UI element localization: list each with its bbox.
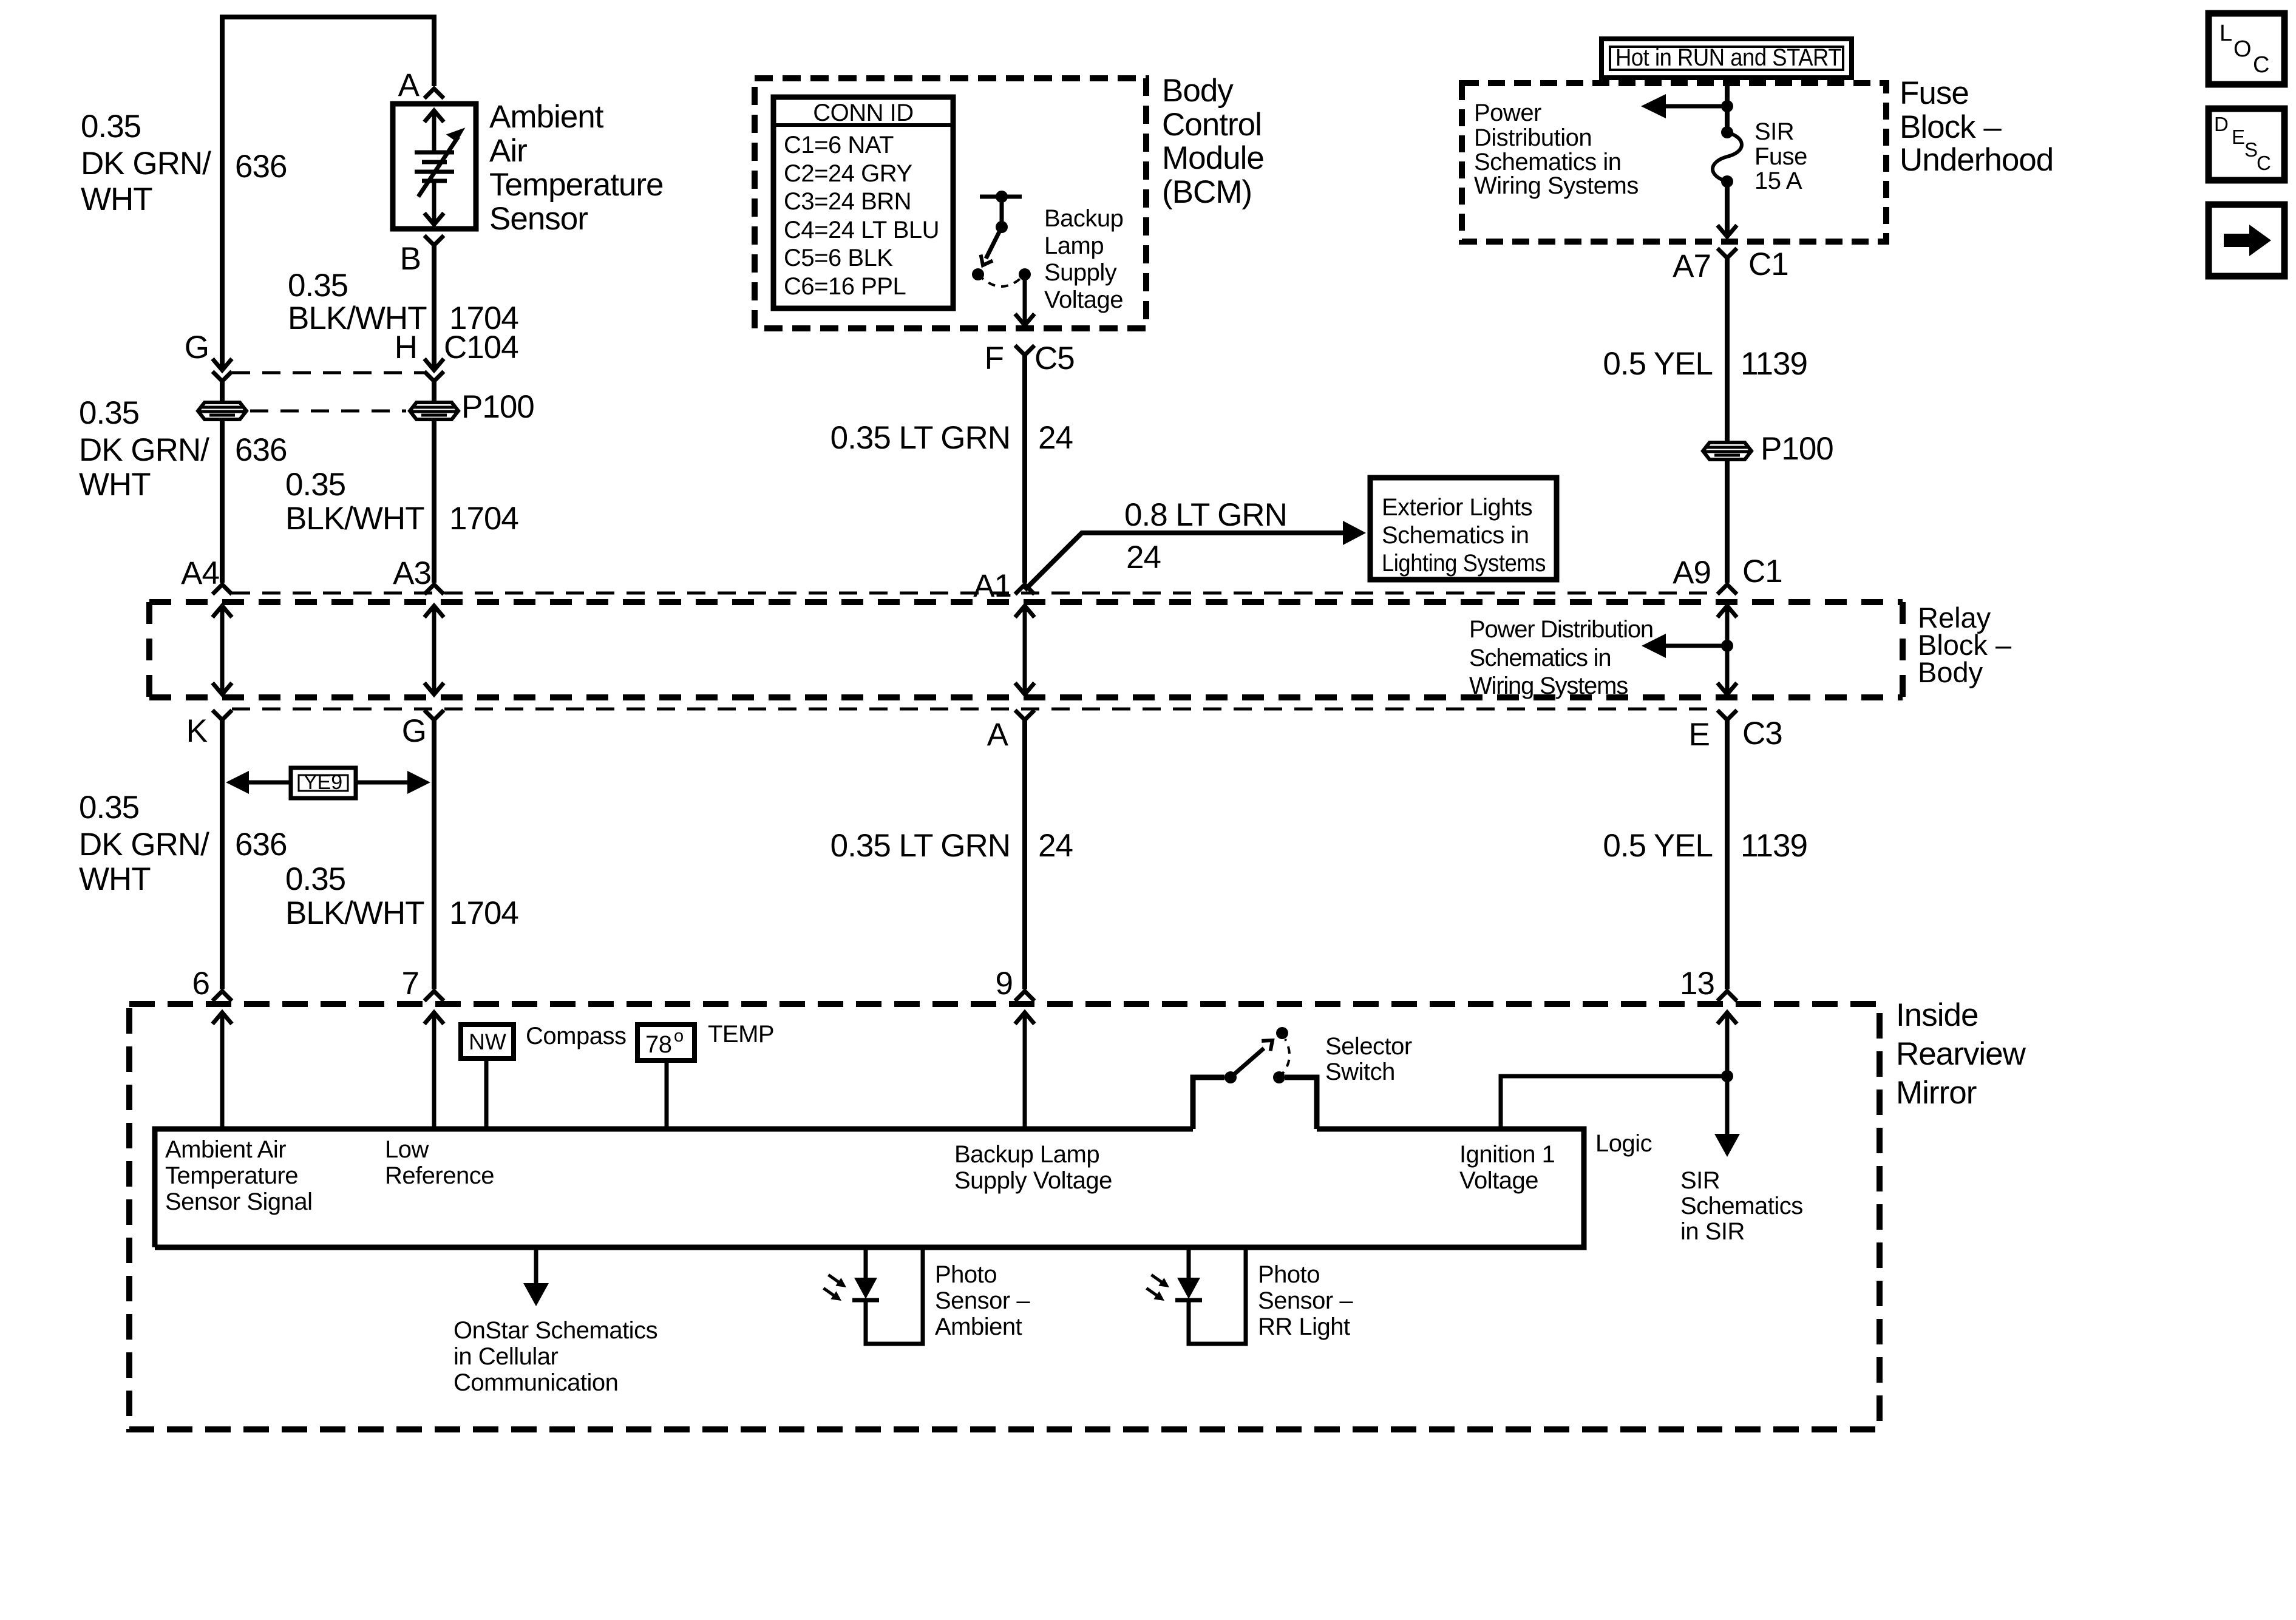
- svg-text:H: H: [395, 330, 417, 365]
- connector A (relay bottom): [987, 710, 1034, 753]
- svg-text:A1: A1: [973, 568, 1011, 604]
- svg-text:P100: P100: [461, 389, 534, 425]
- svg-text:7: 7: [402, 966, 419, 1001]
- junction node (fuse feed): [1721, 100, 1733, 112]
- svg-text:1139: 1139: [1741, 828, 1807, 864]
- icon DESC: [2209, 109, 2284, 180]
- svg-text:636: 636: [235, 827, 287, 863]
- connector pin 9 (inside rearview mirror): [996, 966, 1034, 1001]
- wire: fuse to A7: [1725, 181, 1730, 236]
- svg-text:0.8 LT GRN: 0.8 LT GRN: [1124, 497, 1287, 533]
- compass display NW: [461, 1025, 514, 1129]
- svg-text:78: 78: [645, 1031, 672, 1058]
- svg-text:G: G: [185, 330, 209, 365]
- connector G (relay bottom): [402, 710, 444, 749]
- svg-text:Logic: Logic: [1595, 1130, 1652, 1157]
- wire: hot feed into fuse: [1725, 78, 1730, 132]
- svg-text:D: D: [2214, 113, 2229, 135]
- wire 636: K down to pin 6: [220, 720, 225, 989]
- wire 1704: G down to pin 7: [432, 720, 436, 989]
- wire 636: top loop from col1 up over to sensor pin A: [222, 17, 434, 369]
- mirror internal wire from pin 13: [1717, 1012, 1737, 1127]
- svg-text:0.35 LT GRN: 0.35 LT GRN: [830, 828, 1010, 864]
- relay block internal wire col3: [1015, 606, 1034, 694]
- inside rearview mirror dashed box: [129, 1004, 1880, 1429]
- svg-text:24: 24: [1038, 420, 1073, 456]
- mirror internal wire from pin 7: [424, 1012, 444, 1129]
- svg-text:CONN ID: CONN ID: [813, 100, 913, 126]
- svg-text:636: 636: [235, 432, 287, 468]
- svg-text:C3: C3: [1742, 716, 1782, 751]
- wire 636: G to splice: [220, 381, 225, 401]
- svg-text:C5: C5: [1034, 341, 1075, 376]
- dashed connector line C104: [232, 371, 424, 374]
- ambient air temperature sensor (thermistor in box): [393, 104, 476, 229]
- fuse block - underhood dashed box: [1462, 83, 1886, 242]
- svg-text:24: 24: [1038, 828, 1073, 864]
- icon LOC: [2209, 13, 2284, 84]
- svg-text:YE9: YE9: [304, 771, 342, 794]
- temp display 78deg: [637, 1025, 695, 1129]
- svg-text:TEMP: TEMP: [708, 1021, 774, 1048]
- icon next-page arrow: [2209, 205, 2284, 276]
- arrow to power distribution (fuse block): [1641, 94, 1727, 118]
- wire 1139: E down to pin 13: [1725, 720, 1730, 989]
- mirror logic module box (with selector switch notch): [155, 1077, 1584, 1247]
- relay block internal wire col4: [1717, 606, 1737, 694]
- mirror internal wire from pin 9: [1015, 1012, 1034, 1129]
- svg-text:13: 13: [1680, 966, 1714, 1001]
- svg-text:0.5 YEL: 0.5 YEL: [1603, 346, 1713, 382]
- svg-text:A9: A9: [1673, 555, 1711, 591]
- connector F / C5 below BCM: [985, 341, 1075, 376]
- svg-text:C1: C1: [1742, 554, 1782, 589]
- wire branch 0.8 LT GRN 24 to exterior lights: [1025, 533, 1350, 590]
- svg-text:C1: C1: [1748, 246, 1788, 282]
- relay block internal wire col2: [424, 606, 444, 694]
- connector pin B of sensor: [400, 236, 444, 277]
- connector A9 / C1: [1673, 554, 1782, 594]
- splice P100 (col1): [198, 402, 246, 419]
- relay block - body dashed box: [149, 602, 1903, 697]
- selector switch: [1224, 1027, 1289, 1083]
- note box: Exterior Lights Schematics in Lighting Systems: [1370, 478, 1557, 580]
- svg-text:G: G: [402, 713, 426, 749]
- svg-text:636: 636: [235, 149, 287, 185]
- svg-text:Hot in RUN and START: Hot in RUN and START: [1615, 44, 1841, 71]
- svg-text:Compass: Compass: [526, 1023, 626, 1049]
- relay block internal wire col1: [212, 606, 232, 694]
- connector pin 13 (inside rearview mirror): [1680, 966, 1737, 1001]
- backup lamp relay switch inside BCM: [972, 191, 1034, 325]
- CONN ID table: [773, 97, 953, 308]
- connector A1: [973, 568, 1034, 604]
- mirror internal wire from pin 6: [212, 1012, 232, 1129]
- svg-text:BackupLampSupplyVoltage: BackupLampSupplyVoltage: [1044, 205, 1123, 313]
- svg-text:O: O: [2233, 36, 2252, 62]
- svg-text:1704: 1704: [449, 501, 518, 537]
- svg-text:1704: 1704: [449, 895, 518, 931]
- body control module (BCM) dashed box: [755, 78, 1146, 328]
- svg-text:S: S: [2244, 138, 2258, 161]
- wire 24: A down to pin 9: [1022, 720, 1027, 989]
- svg-text:1139: 1139: [1741, 346, 1807, 382]
- photo sensor - ambient (photodiode): [821, 1247, 923, 1344]
- junction node (relay block col4): [1721, 640, 1733, 652]
- connector pin A of sensor: [398, 67, 444, 103]
- wire 1704: splice down to A3: [432, 421, 436, 583]
- svg-text:C104: C104: [444, 330, 518, 365]
- photo sensor - RR light (photodiode): [1144, 1247, 1246, 1344]
- svg-text:0.5 YEL: 0.5 YEL: [1603, 828, 1713, 864]
- wire 1139: A7 to P100: [1725, 258, 1730, 441]
- wire to OnStar: [523, 1247, 549, 1306]
- svg-text:0.35 LT GRN: 0.35 LT GRN: [830, 420, 1010, 456]
- svg-text:E: E: [2232, 126, 2245, 148]
- wire 24: BCM to A1: [1022, 355, 1027, 583]
- logic wire to SIR: [1501, 1070, 1740, 1157]
- svg-text:A: A: [987, 717, 1009, 753]
- svg-text:A7: A7: [1673, 248, 1711, 284]
- in-line connector C104, terminal H: [395, 330, 518, 381]
- svg-text:P100: P100: [1761, 431, 1833, 467]
- svg-text:C: C: [2257, 152, 2271, 174]
- note box: Hot in RUN and START: [1601, 39, 1852, 78]
- arrow to power distribution (relay block): [1642, 634, 1727, 658]
- svg-text:B: B: [400, 241, 421, 277]
- svg-text:NW: NW: [469, 1029, 506, 1054]
- svg-text:L: L: [2220, 21, 2232, 46]
- svg-text:A: A: [398, 67, 420, 103]
- svg-text:9: 9: [996, 966, 1013, 1001]
- wire 1139: P100 to A9: [1725, 461, 1730, 583]
- svg-text:6: 6: [192, 966, 209, 1001]
- dashed link between P100 splices: [250, 410, 406, 413]
- wire 636: splice down to A4: [220, 421, 225, 583]
- in-line connector C104, terminal G: [185, 330, 232, 381]
- wire 1704: H to splice: [432, 381, 436, 401]
- dashed connector line (relay block bottom): [232, 708, 1717, 711]
- svg-text:E: E: [1689, 717, 1710, 753]
- splice P100 (col2): [410, 389, 534, 425]
- connector K: [186, 710, 232, 749]
- svg-text:F: F: [985, 341, 1004, 376]
- connector E / C3: [1689, 710, 1782, 753]
- wire 1704: sensor pin B down to C104: [432, 245, 436, 369]
- harness tag YE9: [226, 768, 430, 798]
- svg-text:K: K: [186, 713, 208, 749]
- svg-text:Backup LampSupply Voltage: Backup LampSupply Voltage: [954, 1141, 1112, 1194]
- SIR fuse 15A: [1713, 126, 1742, 188]
- connector A4: [181, 555, 232, 594]
- connector A7 / C1 below fuse block: [1673, 246, 1788, 284]
- svg-text:C: C: [2253, 52, 2269, 78]
- connector pin 7 (inside rearview mirror): [402, 966, 444, 1001]
- svg-text:Exterior LightsSchematics inLi: Exterior LightsSchematics inLighting Sys…: [1382, 494, 1546, 577]
- dashed connector line (relay block top): [232, 592, 1717, 595]
- svg-text:A3: A3: [393, 555, 431, 591]
- svg-text:A4: A4: [181, 555, 219, 591]
- splice P100 (col4): [1703, 431, 1833, 467]
- svg-text:24: 24: [1126, 540, 1161, 575]
- connector A3: [393, 555, 444, 594]
- svg-text:o: o: [674, 1026, 684, 1046]
- connector pin 6 (inside rearview mirror): [192, 966, 232, 1001]
